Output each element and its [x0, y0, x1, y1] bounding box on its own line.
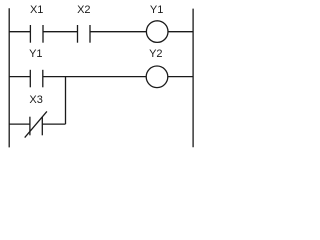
- svg-text:X3: X3: [29, 94, 42, 106]
- wire X3 to branch node: [42, 123, 65, 125]
- right power rail: [192, 9, 194, 148]
- contact X3 normally closed: [25, 111, 47, 137]
- wire coil Y2 to right rail: [168, 76, 193, 78]
- left power rail: [8, 8, 10, 147]
- branch vertical wire node B: [65, 77, 67, 125]
- contact X1: [30, 25, 43, 43]
- wire rung2 rail to Y1 contact: [9, 76, 30, 78]
- wire rail to X3: [9, 123, 30, 125]
- coil Y2: [146, 66, 168, 88]
- svg-text:Y1: Y1: [29, 48, 42, 60]
- wire Y1 contact to coil Y2: [43, 76, 146, 78]
- contact X2: [78, 25, 91, 43]
- wire rung1 rail to X1: [9, 31, 30, 33]
- svg-text:Y1: Y1: [150, 4, 163, 16]
- svg-text:X2: X2: [77, 4, 90, 16]
- wire X1 to X2: [43, 31, 78, 33]
- svg-text:X1: X1: [30, 4, 43, 16]
- wire X2 to coil Y1: [90, 31, 146, 33]
- contact Y1: [30, 70, 43, 88]
- svg-text:Y2: Y2: [149, 48, 162, 60]
- wire coil Y1 to right rail: [168, 31, 193, 33]
- coil Y1: [146, 21, 168, 43]
